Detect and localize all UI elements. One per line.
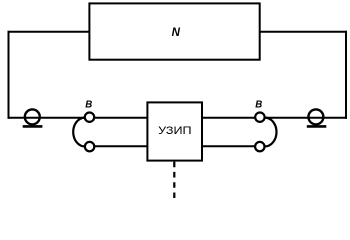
wire top left [8,31,90,33]
right terminal lower circle [255,142,264,151]
right meter bar [307,125,327,128]
left terminal upper circle [85,113,94,122]
svg-text:В: В [255,100,262,111]
load box N [89,3,259,59]
left meter bar [23,125,43,128]
wire right upper from box [201,117,255,119]
dashed earth lead [173,162,175,198]
wire right lower from box [201,145,255,147]
wire top right [260,31,347,33]
left meter circle [25,109,40,124]
wire left vertical [8,31,10,119]
right meter circle [308,109,323,124]
SPD box [147,102,202,160]
svg-text:В: В [85,100,92,111]
wire left lower to box [94,145,148,147]
right terminal upper circle [255,113,264,122]
right link arc [265,118,277,147]
svg-text:N: N [172,27,181,39]
left terminal lower circle [85,142,94,151]
wire right vertical [345,31,347,119]
wire right main [265,117,347,119]
wire left main [8,117,85,119]
svg-text:УЗИП: УЗИП [158,125,192,137]
wire left upper to box [94,117,148,119]
left link arc [73,118,85,147]
